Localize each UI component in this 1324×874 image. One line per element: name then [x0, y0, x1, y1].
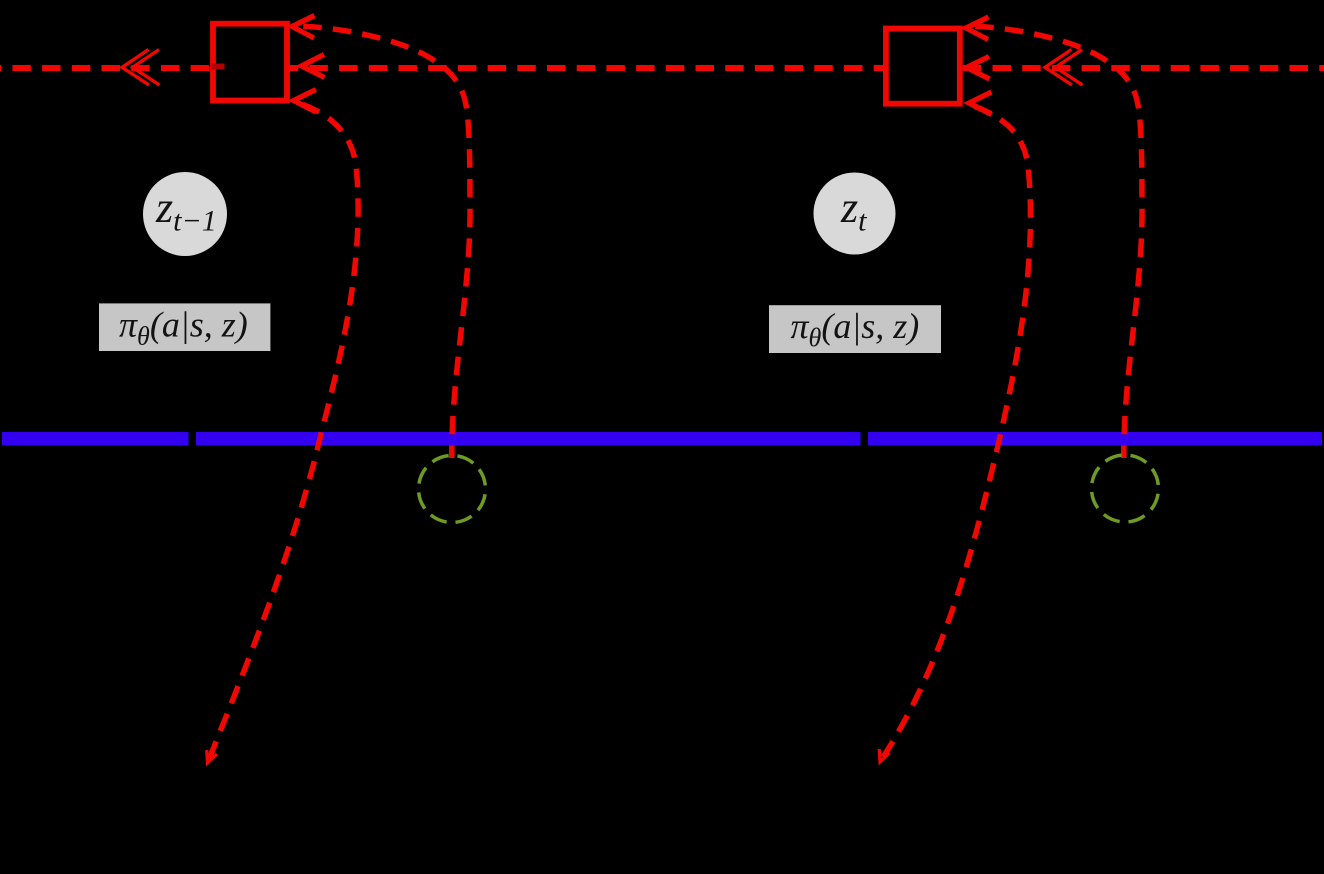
arrowhead middle of right square: [967, 57, 990, 80]
arrowhead at end of C2L: [207, 750, 217, 763]
curve C2L: bottom arc from left square through bar to lower-left arrow: [208, 101, 359, 763]
wire: horizontal red dashed gradient line: [0, 65, 1324, 71]
blue bar segment 3: [868, 432, 1322, 446]
blue bar segment 2: [196, 432, 861, 446]
curve C1L: top arc from left square to green circle 1: [292, 26, 470, 458]
curve C2R: bottom arc from right square through bar to lower arrow: [880, 103, 1030, 762]
curve C1R: top arc from right square to green circle 2: [964, 26, 1142, 458]
green dashed circle 1 (reward bubble left): [405, 442, 499, 536]
left policy box: [99, 303, 270, 351]
dash fragment inside left square: [212, 64, 225, 70]
blue bar segment 1: [2, 432, 189, 446]
left red square: [213, 24, 287, 101]
node z_{t-1} gray circle: [143, 172, 227, 256]
node z_t gray circle: [814, 173, 896, 255]
arrowhead bottom of right square: [969, 92, 992, 115]
left double chevron on gradient line: [122, 50, 149, 86]
right red square: [886, 29, 960, 104]
right policy box: [769, 305, 941, 353]
arrowhead middle of left square: [302, 55, 325, 78]
arrowhead top of right square: [966, 17, 989, 40]
arrowhead bottom of left square: [294, 90, 317, 113]
arrowhead top of left square: [292, 16, 315, 39]
green dashed circle 2 (reward bubble right): [1078, 442, 1172, 536]
arrowhead at end of C2R: [879, 749, 889, 762]
right double chevron on gradient line: [1045, 50, 1072, 86]
